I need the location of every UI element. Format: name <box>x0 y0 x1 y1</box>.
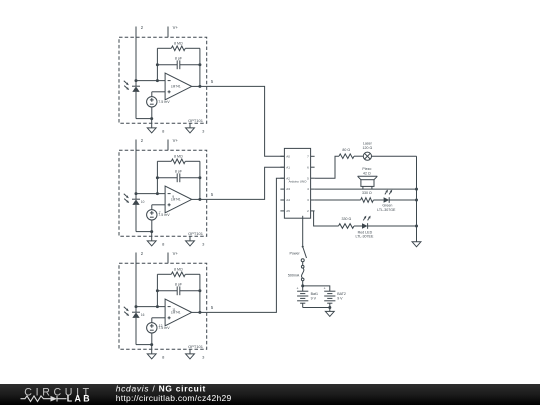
junction dot photodiode/inverting-input node <box>135 192 138 195</box>
svg-text:OPT101: OPT101 <box>188 231 204 236</box>
svg-text:12: 12 <box>159 324 163 328</box>
wire pin2 vertical <box>135 27 137 87</box>
junction dots capacitor row <box>156 176 159 179</box>
Arduino left pin A3 <box>280 188 284 190</box>
ground pin 3 <box>189 236 191 241</box>
op-amp U1 LM741 <box>165 73 192 100</box>
wire block1 output to Arduino A0 <box>207 86 285 156</box>
switch SW1 Power <box>302 246 304 248</box>
light arrows into photodiode <box>124 194 127 197</box>
svg-text:8 MΩ: 8 MΩ <box>174 41 183 45</box>
voltage source V2 7.5 mV <box>147 210 157 220</box>
wire bottom rail <box>136 344 152 346</box>
svg-text:330 Ω: 330 Ω <box>362 191 372 195</box>
resistor R2 330 Ω <box>361 198 374 203</box>
Arduino UNO U4 <box>284 148 310 218</box>
svg-text:8 pF: 8 pF <box>175 283 183 287</box>
wire battery bottom rail <box>303 307 330 309</box>
LED D5 Red LTL-307EE <box>362 223 368 229</box>
wire bottom rail <box>136 231 152 233</box>
voltage source V1 7.5 mV <box>147 97 157 107</box>
svg-text:V+: V+ <box>173 251 179 256</box>
wire resistor to green LED <box>373 199 383 201</box>
svg-text:80 Ω: 80 Ω <box>342 148 350 152</box>
Arduino left pin A1 <box>280 166 284 168</box>
resistor R3 330 Ω <box>339 224 355 229</box>
junction dot feedback left <box>156 305 159 308</box>
svg-text:LTL-307GE: LTL-307GE <box>377 208 396 212</box>
battery Bat1 9 V <box>297 290 308 292</box>
svg-text:330 Ω: 330 Ω <box>342 217 352 221</box>
svg-text:A0: A0 <box>286 154 290 158</box>
feedback resistor 8 MΩ <box>157 273 171 275</box>
Arduino left pin A4 <box>280 199 284 201</box>
svg-text:42 Ω: 42 Ω <box>363 171 371 175</box>
svg-text:Arduino UNO: Arduino UNO <box>289 179 308 183</box>
svg-text:8 pF: 8 pF <box>175 170 183 174</box>
svg-text:LTL-307EE: LTL-307EE <box>355 235 374 239</box>
svg-text:A4: A4 <box>286 198 290 202</box>
wire inverting input <box>136 193 165 195</box>
svg-text:OPT101: OPT101 <box>188 344 204 349</box>
Arduino right pin 6 <box>311 166 315 168</box>
wire switch to fuse <box>302 262 304 266</box>
wire fuse to battery top rail <box>302 281 304 292</box>
svg-text:120 Ω: 120 Ω <box>363 146 373 150</box>
junction dot bottom rail <box>150 230 153 233</box>
svg-text:Laser: Laser <box>363 142 373 146</box>
junction dot feedback left <box>156 79 159 82</box>
feedback resistor 8 MΩ <box>157 47 171 49</box>
fuse F1 500mA <box>301 265 304 268</box>
svg-text:7: 7 <box>159 211 161 215</box>
svg-text:LM741: LM741 <box>171 85 181 89</box>
wire battery top rail <box>303 286 330 291</box>
svg-text:8 MΩ: 8 MΩ <box>174 154 183 158</box>
ground pin 8 <box>151 119 153 128</box>
wire pin2 vertical <box>135 140 137 200</box>
svg-text:+: + <box>297 287 299 291</box>
op-amp U3 LM741 <box>165 299 192 326</box>
wire Arduino pin2 down to red row <box>314 211 339 226</box>
photodiode D2 <box>132 198 140 200</box>
Arduino right pin 2 <box>311 210 315 212</box>
ground right rail <box>412 242 421 247</box>
Arduino left pin A5 <box>280 210 284 212</box>
ground pin 3 <box>189 123 191 128</box>
wire green LED to rail <box>389 199 416 201</box>
svg-text:BAT2: BAT2 <box>337 292 346 296</box>
junction dot bottom rail <box>150 117 153 120</box>
junction dots on rail <box>415 188 418 191</box>
junction dot output/feedback <box>198 198 201 201</box>
junction dot battery bottom <box>328 306 331 309</box>
Arduino right pin 4 <box>311 188 315 190</box>
junction dot photodiode/inverting-input node <box>135 305 138 308</box>
Arduino left pin A0 <box>280 155 284 157</box>
svg-text:A1: A1 <box>286 165 290 169</box>
wire feedback right vertical <box>199 161 201 199</box>
OPT101 photosensor block (dashed package outline) <box>119 150 207 236</box>
junction dot feedback left <box>156 192 159 195</box>
OPT101 photosensor block (dashed package outline) <box>119 263 207 349</box>
LED D4 Green LTL-307GE <box>384 197 390 203</box>
junction dot output/feedback <box>198 85 201 88</box>
wire feedback right vertical <box>199 274 201 312</box>
wire right return rail <box>416 156 418 242</box>
lamp LA1 Laser 120 Ω <box>363 152 371 160</box>
wire Arduino pin5 to laser branch <box>315 156 339 178</box>
junction dots capacitor row <box>156 63 159 66</box>
wire V+ stub <box>167 140 169 151</box>
wire Arduino pin3 to resistor <box>315 199 361 201</box>
ground battery <box>329 308 331 312</box>
ground pin 8 <box>151 345 153 354</box>
junction dot photodiode/inverting-input node <box>135 79 138 82</box>
wire V+ stub <box>167 27 169 38</box>
ground pin 3 <box>189 349 191 354</box>
svg-text:LM741: LM741 <box>171 311 181 315</box>
wire feedback left vertical <box>156 274 158 306</box>
svg-text:LAB: LAB <box>67 394 92 404</box>
ground pin 8 <box>151 232 153 241</box>
wire non-inverting input <box>152 91 165 93</box>
wire Arduino Vin down to switch <box>302 218 304 246</box>
svg-text:A5: A5 <box>286 209 290 213</box>
wire V+ stub <box>167 253 169 264</box>
svg-text:V+: V+ <box>173 25 179 30</box>
svg-text:16: 16 <box>141 313 145 317</box>
resistor R1 80 Ω <box>339 154 354 159</box>
feedback capacitor 8 pF <box>157 177 177 179</box>
svg-text:500mA: 500mA <box>288 274 300 278</box>
feedback capacitor 8 pF <box>157 290 177 292</box>
Arduino right pin 5 <box>311 177 315 179</box>
wire resistor to laser <box>354 155 363 157</box>
junction dots capacitor row <box>156 289 159 292</box>
voltage source V3 7.5 mV <box>147 323 157 333</box>
wire resistor to red LED <box>354 225 362 227</box>
wire feedback right vertical <box>199 48 201 86</box>
svg-text:A3: A3 <box>286 187 290 191</box>
wire feedback left vertical <box>156 48 158 80</box>
light arrows into photodiode <box>124 81 127 84</box>
wire non-inverting input <box>152 317 165 319</box>
junction dot battery top <box>301 284 304 287</box>
wire non-inverting input <box>152 204 165 206</box>
wire feedback left vertical <box>156 161 158 193</box>
svg-text:7.5 mV: 7.5 mV <box>158 100 170 104</box>
piezo speaker SP1 42 Ω <box>358 175 378 177</box>
svg-text:Red LED: Red LED <box>358 230 373 234</box>
wire block3 output to Arduino A2 <box>207 178 285 312</box>
svg-text:10: 10 <box>141 200 145 204</box>
svg-text:9 V: 9 V <box>337 297 343 301</box>
svg-text:OPT101: OPT101 <box>188 118 204 123</box>
junction dot bottom rail <box>150 343 153 346</box>
junction dot output/feedback <box>198 311 201 314</box>
feedback resistor 8 MΩ <box>157 160 171 162</box>
Arduino right pin 3 <box>311 199 315 201</box>
svg-text:+: + <box>324 287 326 291</box>
photodiode D3 <box>132 311 140 313</box>
svg-text:Power: Power <box>290 251 301 255</box>
OPT101 photosensor block (dashed package outline) <box>119 37 207 123</box>
wire op-amp output <box>192 198 207 200</box>
svg-text:LM741: LM741 <box>171 198 181 202</box>
feedback capacitor 8 pF <box>157 64 177 66</box>
wire bottom rail <box>136 118 152 120</box>
photodiode D1 <box>132 85 140 87</box>
wire inverting input <box>136 80 165 82</box>
Arduino bottom power pin <box>302 216 304 218</box>
wire inverting input <box>136 306 165 308</box>
svg-text:Bat1: Bat1 <box>311 292 318 296</box>
svg-text:A2: A2 <box>286 176 290 180</box>
Arduino right pin 7 <box>311 155 315 157</box>
wire pin2 vertical <box>135 253 137 313</box>
svg-text:http://circuitlab.com/cz42h29: http://circuitlab.com/cz42h29 <box>116 393 232 403</box>
svg-text:9 V: 9 V <box>311 297 317 301</box>
op-amp U2 LM741 <box>165 186 192 213</box>
wire block2 output to Arduino A1 <box>207 167 285 199</box>
wire Arduino pin4 to rail (piezo row) <box>315 188 417 190</box>
light arrows into photodiode <box>124 307 127 310</box>
wire red LED to rail <box>368 225 417 227</box>
wire laser to rail <box>372 155 417 157</box>
Arduino left pin A2 <box>280 177 284 179</box>
svg-text:V+: V+ <box>173 138 179 143</box>
svg-text:8 MΩ: 8 MΩ <box>174 267 183 271</box>
svg-text:8 pF: 8 pF <box>175 57 183 61</box>
battery BAT2 9 V <box>324 290 335 292</box>
wire op-amp output <box>192 311 207 313</box>
wire op-amp output <box>192 85 207 87</box>
